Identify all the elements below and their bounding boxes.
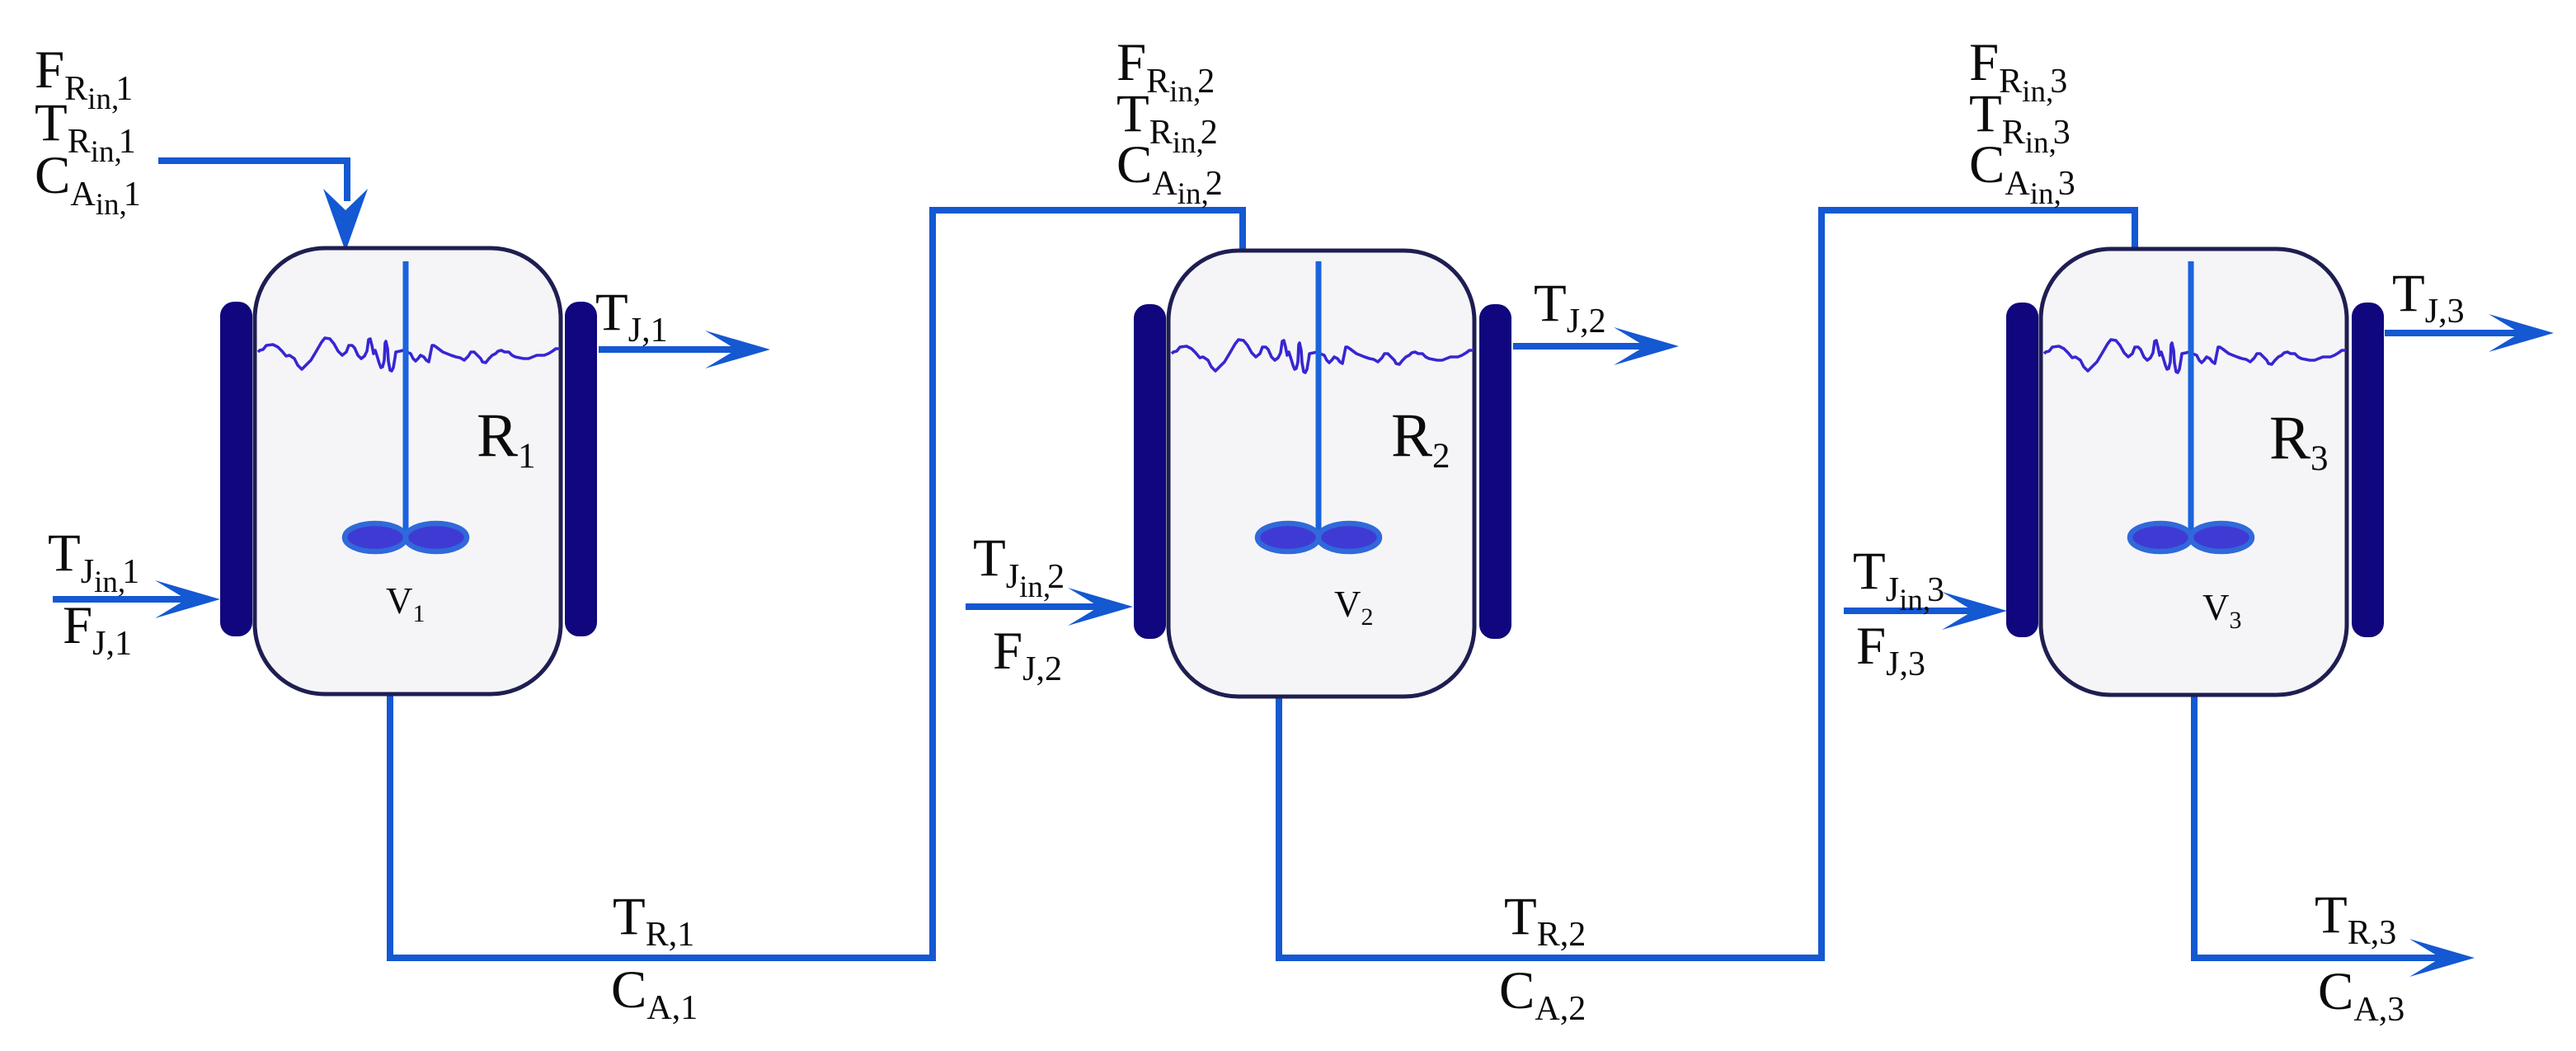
reactor R1 vessel body (255, 248, 561, 694)
jacket right bar R3 (2352, 303, 2384, 637)
reactor R2 vessel body (1168, 251, 1474, 697)
wire jacket inlet arrow R1 (53, 596, 187, 603)
wire jacket outlet arrow R2 (1513, 343, 1646, 350)
wire outlet of R2 to feed of R3 (node T_R,2 / C_A,2) (1279, 210, 2135, 958)
liquid surface wave R1 (258, 338, 560, 371)
liquid surface wave R3 (2044, 340, 2346, 373)
jacket right bar R1 (565, 302, 597, 636)
feed arrowhead into R1 (323, 189, 368, 251)
wire jacket inlet arrow R3 (1844, 608, 1974, 614)
stirrer rod R1 (403, 261, 409, 537)
wire jacket outlet arrow R3 (2385, 330, 2521, 336)
jacket left bar R3 (2006, 303, 2038, 637)
wire outlet of R1 to feed of R2 (node T_R,1 / C_A,1) (390, 210, 1243, 958)
stirrer rod R2 (1316, 261, 1322, 537)
wire feed pipe into R1 (158, 161, 347, 201)
stirrer paddles R3 (2130, 523, 2252, 551)
wire jacket inlet arrow R2 (966, 603, 1100, 610)
stirrer paddles R1 (345, 523, 467, 551)
liquid surface wave R2 (1172, 340, 1474, 373)
product arrowhead R3 outlet (2409, 939, 2475, 977)
reactor R3 vessel body (2041, 249, 2347, 695)
wire jacket outlet arrow R1 (599, 346, 737, 353)
wire product outlet of R3 (node T_R,3 / C_A,3) (2194, 694, 2443, 958)
jacket left bar R1 (220, 302, 252, 636)
jacket right bar R2 (1479, 304, 1511, 639)
stirrer rod R3 (2188, 261, 2194, 537)
stirrer paddles R2 (1257, 523, 1380, 551)
jacket left bar R2 (1134, 304, 1166, 639)
